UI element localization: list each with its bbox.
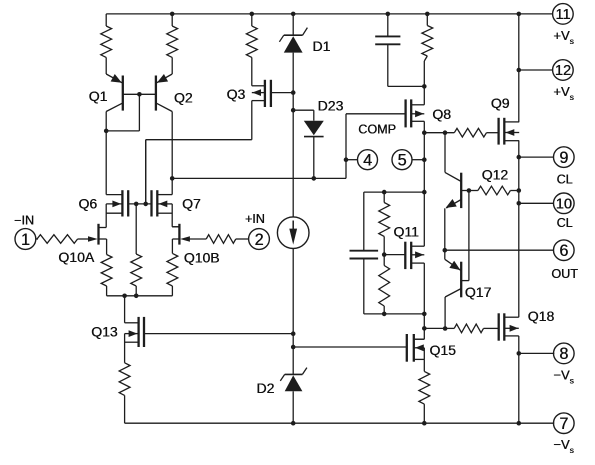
svg-text:10: 10 bbox=[556, 196, 572, 212]
svg-text:Q7: Q7 bbox=[182, 196, 201, 212]
svg-text:5: 5 bbox=[398, 151, 407, 169]
svg-text:Q12: Q12 bbox=[482, 166, 509, 182]
svg-text:−IN: −IN bbox=[14, 214, 34, 228]
svg-text:Q2: Q2 bbox=[174, 90, 193, 106]
svg-text:8: 8 bbox=[560, 345, 569, 363]
svg-text:Q1: Q1 bbox=[89, 88, 108, 104]
svg-text:COMP: COMP bbox=[358, 123, 396, 137]
svg-text:9: 9 bbox=[560, 149, 569, 167]
svg-text:Q8: Q8 bbox=[433, 106, 452, 122]
svg-text:Q6: Q6 bbox=[79, 196, 98, 212]
svg-text:Q9: Q9 bbox=[491, 95, 510, 111]
svg-text:Q10A: Q10A bbox=[59, 249, 95, 265]
svg-text:Q18: Q18 bbox=[528, 308, 555, 324]
svg-text:4: 4 bbox=[363, 151, 372, 169]
svg-text:+IN: +IN bbox=[245, 212, 265, 226]
svg-text:Q3: Q3 bbox=[227, 86, 246, 102]
svg-text:D23: D23 bbox=[318, 97, 344, 113]
svg-text:Q13: Q13 bbox=[91, 324, 118, 340]
svg-text:D1: D1 bbox=[313, 38, 331, 54]
svg-text:2: 2 bbox=[255, 231, 264, 249]
svg-text:12: 12 bbox=[555, 63, 571, 79]
svg-text:CL: CL bbox=[557, 216, 573, 230]
svg-text:CL: CL bbox=[557, 172, 573, 186]
svg-text:Q10B: Q10B bbox=[184, 250, 220, 266]
svg-text:Q11: Q11 bbox=[394, 223, 420, 239]
svg-text:OUT: OUT bbox=[552, 267, 579, 281]
svg-text:Q17: Q17 bbox=[465, 284, 492, 300]
svg-text:D2: D2 bbox=[257, 380, 275, 396]
svg-text:1: 1 bbox=[21, 231, 30, 249]
svg-text:Q15: Q15 bbox=[430, 342, 457, 358]
svg-text:11: 11 bbox=[556, 7, 571, 23]
svg-text:6: 6 bbox=[560, 242, 569, 260]
svg-text:7: 7 bbox=[560, 415, 569, 433]
